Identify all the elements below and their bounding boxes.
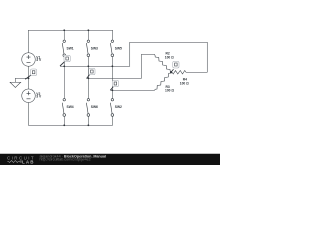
svg-text:SW5: SW5	[115, 46, 122, 50]
labels	[36, 46, 189, 109]
probe P1 node V1-V2	[25, 69, 37, 79]
wire SW5 column upper	[111, 30, 113, 66]
resistor R2	[154, 54, 171, 72]
wire middle bus	[60, 65, 130, 67]
voltage source V2	[22, 89, 36, 103]
wire R3 feed	[111, 89, 155, 91]
switch SW3	[86, 40, 89, 57]
footer bar	[0, 154, 220, 165]
svg-text:SW2: SW2	[115, 105, 122, 109]
wire SW4 bottom	[63, 116, 65, 125]
switch SW2	[110, 99, 113, 117]
svg-text:LAB: LAB	[22, 159, 35, 164]
svg-text:http://circuitlab.com/c/xqbjw4: http://circuitlab.com/c/xqbjw4e2	[40, 158, 91, 162]
svg-text:SW3: SW3	[91, 46, 98, 50]
svg-text:R2: R2	[166, 52, 170, 56]
svg-text:SW4: SW4	[67, 105, 74, 109]
junction dots	[28, 29, 173, 126]
probe P5 node R junction	[171, 61, 179, 72]
wire V2 bottom	[27, 102, 29, 125]
probe P3 node SW3	[87, 68, 96, 78]
svg-text:100 Ω: 100 Ω	[165, 55, 174, 59]
wire SW1 column upper	[63, 30, 65, 66]
wire SW3 column upper	[87, 30, 89, 66]
wire ground feed	[16, 77, 29, 79]
wire SW5-SW2 column link	[111, 66, 113, 98]
svg-text:3 V: 3 V	[36, 95, 42, 99]
svg-text:SW6: SW6	[91, 105, 98, 109]
wire SW2 bottom	[111, 116, 113, 125]
resistor R4	[171, 71, 187, 75]
svg-text:R4: R4	[183, 77, 187, 81]
wire SW3-SW6 column link	[87, 66, 89, 98]
probe P2 node SW1	[60, 55, 70, 66]
CircuitLab logo	[7, 156, 35, 165]
wire SW6 bottom	[87, 116, 89, 125]
probe P4 node SW5	[110, 80, 118, 90]
switch SW5	[110, 40, 113, 57]
switch SW1	[62, 40, 65, 57]
svg-text:100 Ω: 100 Ω	[165, 89, 174, 93]
wire SW1-SW4 column link	[63, 66, 65, 98]
switch SW6	[86, 99, 89, 117]
svg-text:3 V: 3 V	[36, 58, 42, 62]
svg-text:SW1: SW1	[67, 46, 74, 50]
voltage source V1	[22, 53, 36, 67]
wire V1 to V2	[27, 66, 29, 89]
svg-text:100 Ω: 100 Ω	[180, 81, 189, 85]
switch SW4	[62, 99, 65, 117]
wire R2 feed	[87, 54, 154, 78]
wire R4 to right rail	[130, 42, 208, 72]
wire top bus	[29, 29, 113, 31]
wire bottom bus	[29, 124, 113, 126]
resistor R3	[155, 72, 172, 90]
wire V1 top stub	[27, 30, 29, 53]
ground	[10, 78, 21, 87]
